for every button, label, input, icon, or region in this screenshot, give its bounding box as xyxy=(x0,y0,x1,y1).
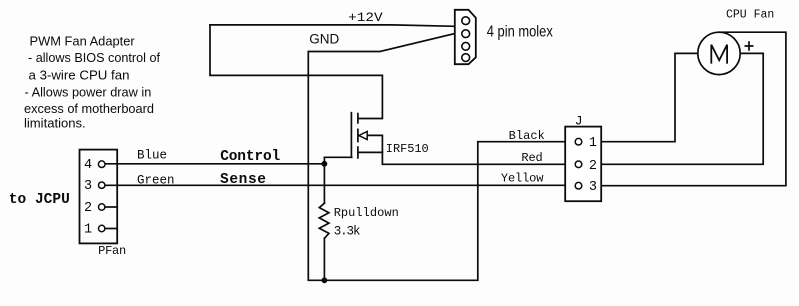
svg-text:- Allows power draw in: - Allows power draw in xyxy=(25,84,152,99)
svg-text:J: J xyxy=(575,114,583,129)
svg-text:Green: Green xyxy=(137,174,175,188)
svg-text:Rpulldown: Rpulldown xyxy=(334,206,399,220)
svg-text:GND: GND xyxy=(309,32,339,47)
svg-text:3: 3 xyxy=(589,180,597,195)
svg-text:2: 2 xyxy=(84,201,92,216)
svg-text:3.3k: 3.3k xyxy=(334,225,361,239)
svg-text:Red: Red xyxy=(521,151,542,165)
svg-text:4 pin molex: 4 pin molex xyxy=(487,24,553,41)
svg-text:IRF510: IRF510 xyxy=(386,142,429,156)
svg-text:- allows BIOS control of: - allows BIOS control of xyxy=(28,50,160,65)
svg-text:to JCPU: to JCPU xyxy=(9,192,70,208)
svg-text:Sense: Sense xyxy=(220,172,266,188)
svg-text:PFan: PFan xyxy=(98,244,126,258)
svg-text:PWM Fan Adapter: PWM Fan Adapter xyxy=(30,33,136,48)
svg-text:CPU Fan: CPU Fan xyxy=(726,9,774,22)
svg-text:1: 1 xyxy=(84,223,92,238)
svg-text:2: 2 xyxy=(589,159,597,174)
svg-text:4: 4 xyxy=(84,158,92,173)
svg-text:a 3-wire CPU fan: a 3-wire CPU fan xyxy=(29,68,130,83)
svg-text:3: 3 xyxy=(84,179,92,194)
svg-text:Yellow: Yellow xyxy=(501,172,544,186)
svg-text:limitations.: limitations. xyxy=(24,116,86,131)
svg-text:Blue: Blue xyxy=(137,149,167,163)
svg-text:+12V: +12V xyxy=(348,11,383,25)
svg-text:Control: Control xyxy=(220,149,280,165)
svg-text:1: 1 xyxy=(589,136,597,151)
svg-text:excess of motherboard: excess of motherboard xyxy=(24,101,154,116)
svg-text:Black: Black xyxy=(509,129,545,143)
